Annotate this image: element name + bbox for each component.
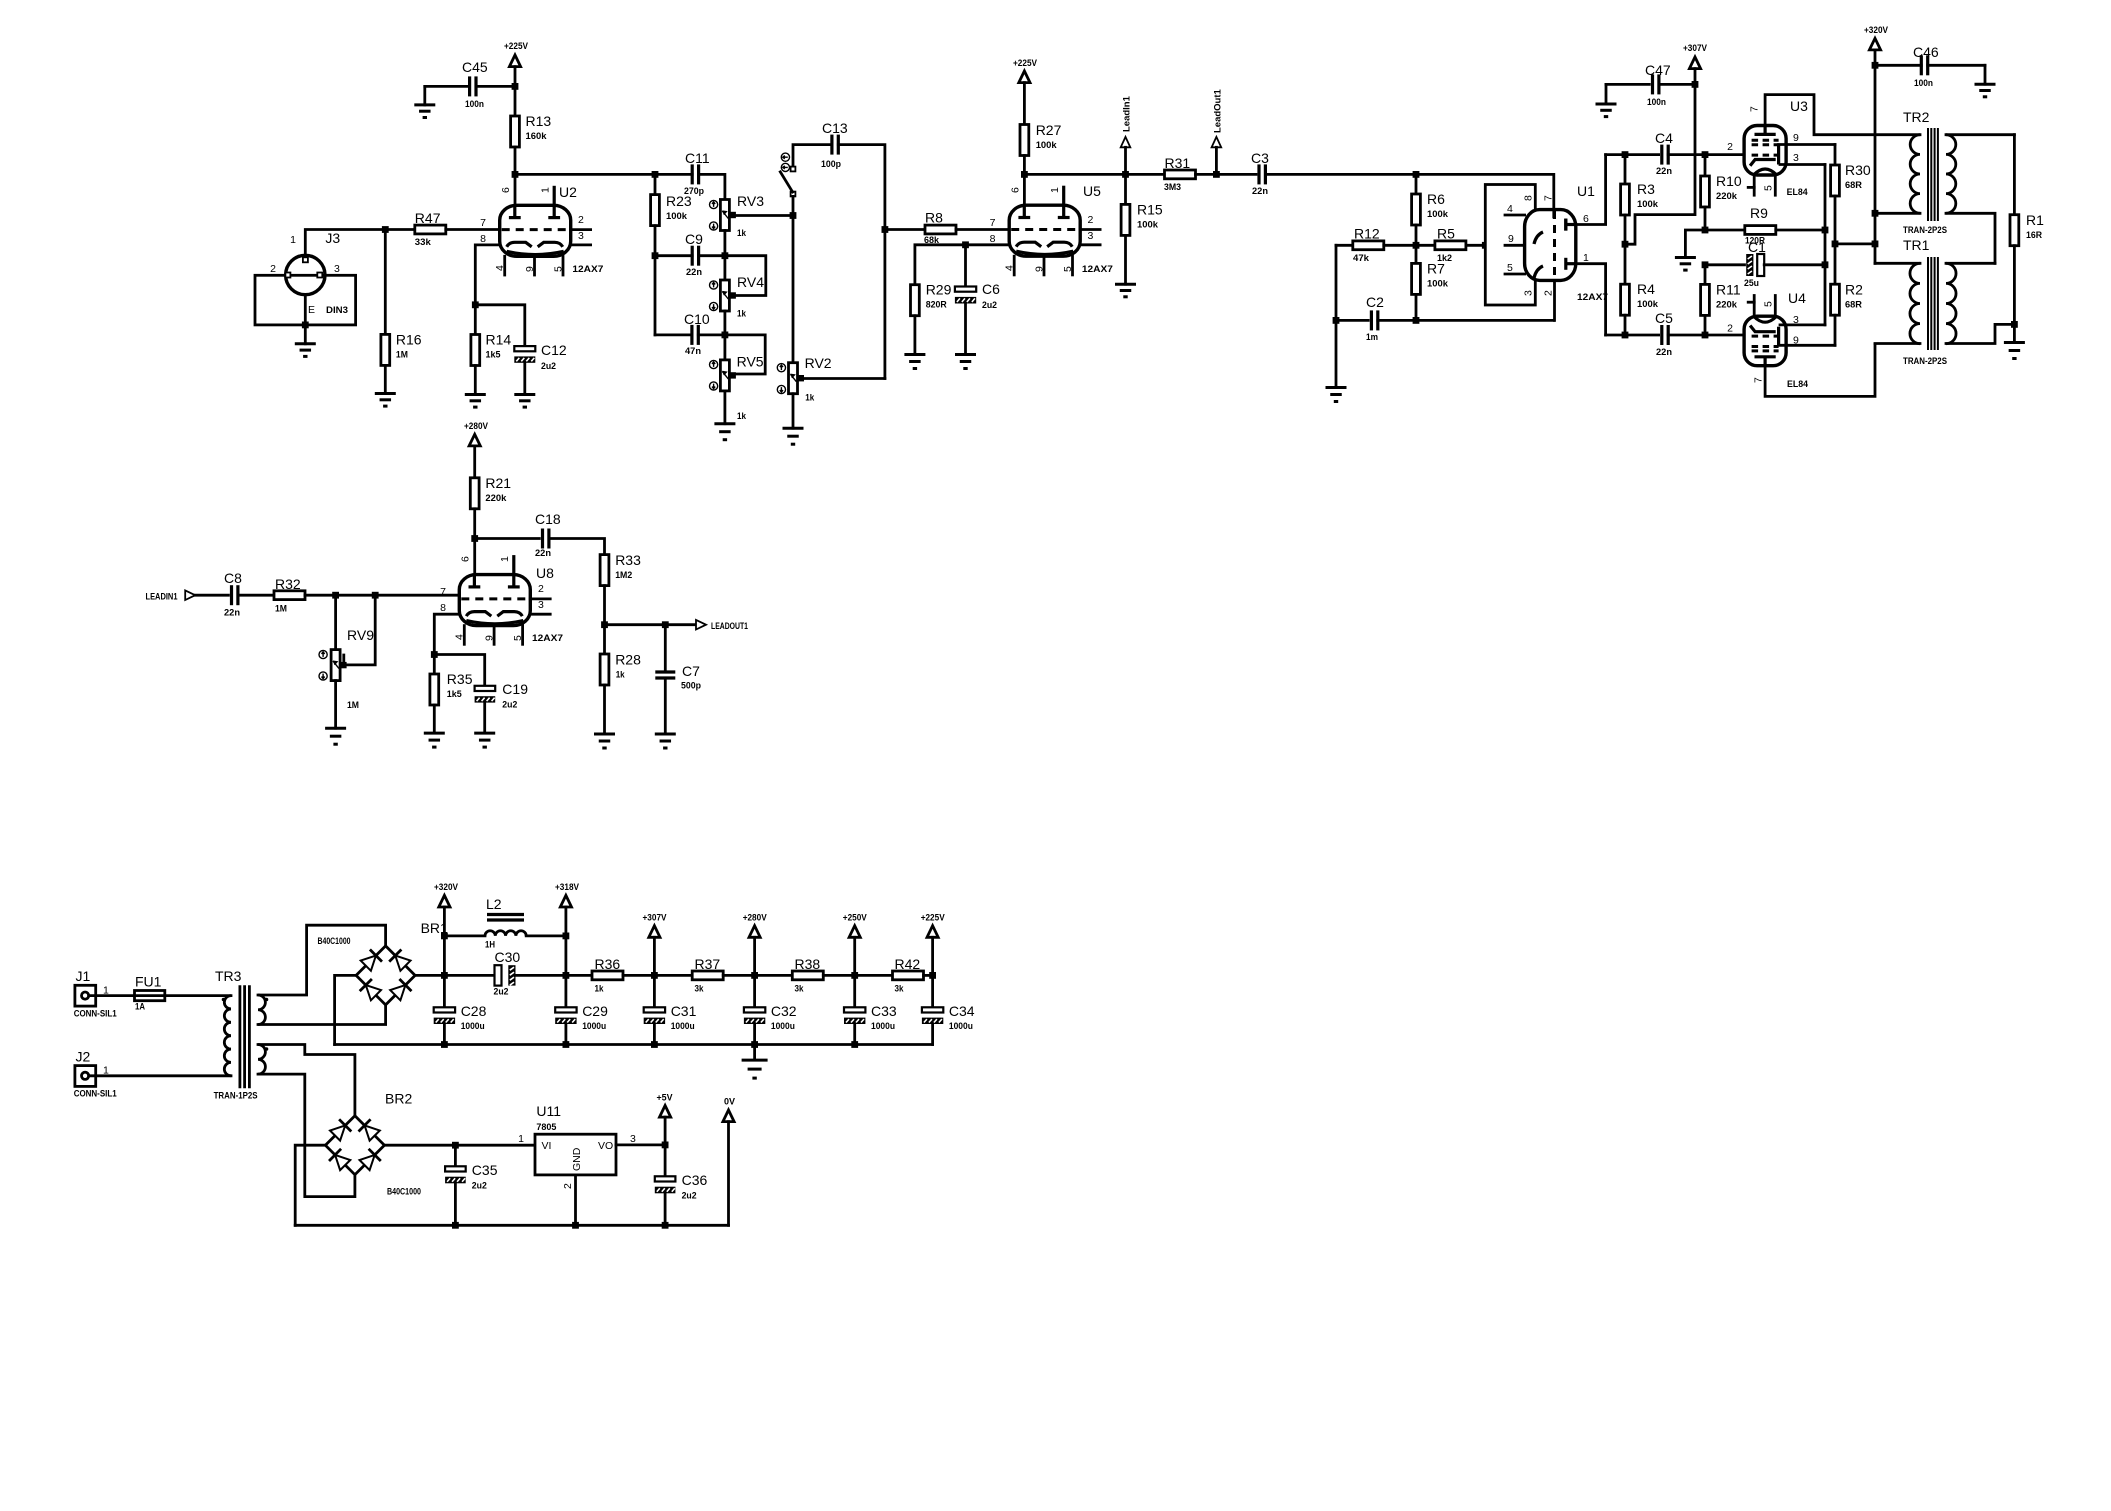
ground (R15) [1124,235,1127,284]
ground (C19) [483,703,486,734]
svg-text:1m: 1m [1366,332,1378,343]
regulator U11 7805 [535,1134,616,1175]
resistor R36 [592,971,623,980]
connector J3 box [255,275,356,325]
svg-text:E: E [308,304,315,316]
svg-text:BR2: BR2 [385,1091,412,1107]
capacitor C9 [691,246,694,266]
svg-text:22n: 22n [1252,186,1268,197]
svg-text:7: 7 [440,586,446,598]
svg-text:C36: C36 [682,1172,708,1188]
potentiometer RV3 [720,200,729,231]
svg-text:LeadOut1: LeadOut1 [1212,88,1223,133]
wire plate bus to R31 [1024,173,1164,176]
svg-text:R4: R4 [1637,281,1655,297]
svg-text:R12: R12 [1354,226,1380,242]
RV4 wiper loop [725,256,766,296]
ground (C12) [523,364,526,395]
svg-text:R15: R15 [1137,202,1163,218]
capacitor C32 [753,975,756,1007]
U3 pin3 wire [1780,163,1825,166]
svg-text:5: 5 [1763,301,1775,307]
svg-text:4: 4 [454,634,466,640]
node U5 plate [1021,171,1028,178]
node C10/RV4 [722,332,729,339]
wire C10 right [698,333,725,336]
svg-text:8: 8 [440,602,446,614]
0V rail [295,1224,728,1227]
ground stub (R9) [1685,230,1705,258]
svg-text:+5V: +5V [657,1093,673,1103]
svg-text:3M3: 3M3 [1164,182,1181,193]
wire LEADIN1 to C8 [195,594,228,597]
svg-text:R2: R2 [1845,282,1863,298]
capacitor C31 [653,975,656,1007]
resistor R21 [470,478,479,509]
svg-text:12AX7: 12AX7 [572,264,603,275]
ground (HV rail) [753,1045,756,1061]
svg-text:C45: C45 [462,59,488,75]
U3 heater stubs [1753,176,1756,195]
capacitor C34 [931,975,934,1007]
svg-text:3k: 3k [895,984,905,995]
wire TR2 sec to R1 [2013,135,2016,215]
U1 pin2 lead [1553,280,1556,320]
svg-text:7: 7 [1749,106,1761,112]
tube U3 EL84 [1744,126,1786,176]
wire C11 to RV3 [699,174,725,199]
resistor R35 [433,655,436,675]
svg-text:1000u: 1000u [461,1021,485,1032]
ground (RV9) [334,681,337,729]
tube U8 12AX7 [459,575,530,626]
U4 heater stubs [1753,296,1756,317]
capacitor C7 [664,625,667,672]
svg-text:22n: 22n [1656,347,1672,358]
svg-text:RV2: RV2 [805,355,832,371]
svg-text:3: 3 [538,599,544,611]
svg-text:C35: C35 [472,1162,498,1178]
capacitor C1 [1705,263,1745,266]
capacitor C36 [664,1145,667,1176]
svg-text:C34: C34 [949,1003,975,1019]
svg-text:1A: 1A [135,1002,145,1013]
wire RV2 wiper [801,377,885,380]
svg-text:1000u: 1000u [871,1021,895,1032]
capacitor C28 [443,975,446,1007]
resistor R3 [1624,155,1627,184]
U1 connection box [1485,185,1535,306]
svg-text:C7: C7 [682,663,700,679]
RV5 adjust arrows [710,360,718,368]
U1 pin7 lead [1552,210,1555,217]
wire C5 to U4 pin2 [1668,334,1744,337]
svg-text:R3: R3 [1637,181,1655,197]
wire R2 to U4 pin9 [1834,315,1837,345]
wire +225V to R13 [514,86,517,116]
svg-text:100p: 100p [821,159,841,170]
wire R33 to LEADOUT node [603,586,606,625]
node C9/RV3 [722,252,729,259]
wire J3 E to box bottom [304,295,307,325]
svg-text:C13: C13 [822,120,848,136]
svg-text:CONN-SIL1: CONN-SIL1 [74,1089,118,1100]
capacitor C6 [964,245,967,287]
svg-text:R21: R21 [485,475,511,491]
svg-text:1k: 1k [616,670,626,681]
bridge rectifier BR1 [356,946,415,1005]
svg-text:+280V: +280V [464,421,488,431]
ground (R29) [914,316,917,355]
resistor R8 [885,228,925,231]
fuse FU1 [135,991,165,1001]
svg-text:9: 9 [1034,266,1046,272]
ground (C6) [964,304,967,355]
ground (R28) [603,685,606,734]
tube U2 12AX7 [500,205,571,256]
svg-text:3: 3 [630,1133,636,1145]
capacitor C13 [830,135,833,155]
node R1/ground [2011,321,2018,328]
svg-text:3: 3 [334,263,340,275]
node +5V [662,1142,669,1149]
J3 pin squares [303,257,308,262]
resistor R6 [1415,174,1418,194]
inductor L2 [444,935,485,938]
svg-text:2: 2 [578,214,584,226]
svg-text:7: 7 [1542,195,1554,201]
ground (C7) [664,678,667,734]
wire C4 bus [1606,153,1659,156]
svg-text:100n: 100n [1647,97,1666,108]
svg-text:2: 2 [1542,290,1554,296]
wire C8 to R32 [238,594,274,597]
wire BR2 minus to 0V rail [295,1145,325,1225]
wire pin6 U2 [514,174,517,205]
svg-text:25u: 25u [1744,278,1759,289]
wire RV3 wiper to switch node [734,214,793,217]
svg-text:100k: 100k [1637,199,1659,210]
svg-text:TR2: TR2 [1903,109,1930,125]
node R3/R4 (+307V feed) [1622,241,1629,248]
ground (R16) [384,365,387,393]
svg-text:C30: C30 [495,949,521,965]
wire C18 to R33 [549,539,605,555]
capacitor C5 [1660,325,1663,345]
svg-text:U2: U2 [559,184,577,200]
svg-text:1: 1 [1049,187,1061,193]
svg-text:220k: 220k [1716,191,1738,202]
U3 pin9 wire [1779,143,1835,146]
wire node to +320V bus [1835,242,1875,245]
svg-text:R13: R13 [526,113,552,129]
node +250V/C33 [851,972,858,979]
resistor R12 [1336,244,1353,247]
U1 pin stubs 4/9/5 [1505,214,1525,217]
svg-text:C11: C11 [685,150,710,166]
ground (J3) [304,325,307,344]
svg-text:820R: 820R [926,300,947,311]
node C46 [1872,62,1879,69]
svg-text:8: 8 [990,233,996,245]
wire C9 left [658,254,692,257]
svg-text:R7: R7 [1427,261,1445,277]
svg-text:+307V: +307V [1683,43,1707,53]
svg-text:R11: R11 [1716,282,1741,298]
svg-text:R47: R47 [415,210,441,226]
wire R38-R42 [855,974,893,977]
svg-text:12AX7: 12AX7 [1082,264,1113,275]
resistor R14 [474,305,477,335]
node L2 left [441,933,448,940]
svg-text:TR1: TR1 [1903,237,1930,253]
svg-text:100k: 100k [666,211,688,222]
svg-text:1k5: 1k5 [447,689,463,700]
svg-text:C3: C3 [1251,150,1269,166]
wire R13 to plate node [514,147,517,174]
svg-text:C6: C6 [982,281,1000,297]
svg-text:C18: C18 [535,511,561,527]
ground (RV2) [792,394,795,429]
svg-text:U11: U11 [536,1103,561,1119]
svg-text:9: 9 [484,635,496,641]
tube U5 12AX7 [1009,205,1080,256]
wire RV3 bottom [724,231,727,256]
resistor R11 [1704,265,1707,285]
TR3 secondary 1 coil [258,995,265,1025]
net label LEADOUT1 [696,620,706,630]
svg-text:100k: 100k [1427,279,1449,290]
svg-text:100n: 100n [465,99,484,110]
svg-text:5: 5 [1062,266,1074,272]
svg-text:C2: C2 [1366,294,1384,310]
svg-text:1000u: 1000u [582,1021,606,1032]
capacitor C4 [1660,145,1663,165]
ground (R14) [474,366,477,395]
wire R23 to C10 junction [654,226,657,335]
svg-text:1: 1 [499,556,511,562]
capacitor C33 [853,975,856,1007]
svg-text:DIN3: DIN3 [326,305,348,316]
ground (R1) [2013,324,2016,342]
svg-text:C19: C19 [502,681,528,697]
svg-text:RV5: RV5 [737,354,764,370]
svg-text:CONN-SIL1: CONN-SIL1 [74,1009,118,1020]
node RV9 wiper return [372,592,379,599]
svg-text:+250V: +250V [843,913,867,923]
svg-text:1000u: 1000u [949,1021,973,1032]
node TR2 primary bottom [1872,210,1879,217]
capacitor C45 [468,76,471,96]
svg-text:C5: C5 [1655,310,1673,326]
svg-text:2u2: 2u2 [494,987,509,998]
resistor R1 [2010,215,2019,246]
svg-text:160k: 160k [526,131,548,142]
svg-text:C47: C47 [1645,62,1671,78]
svg-text:1k: 1k [595,984,605,995]
wire C9 right [699,254,725,257]
wire R21 to node [473,509,476,539]
capacitor C10 [690,325,693,345]
ground (R35) [433,705,436,733]
wire U8 pin8 to R35 [434,614,459,654]
potentiometer RV9 [331,650,340,681]
capacitor C2 [1336,319,1368,322]
svg-text:RV3: RV3 [737,193,764,209]
svg-text:EL84: EL84 [1787,187,1809,198]
resistor R38 [792,971,823,980]
wire R37-R38 [755,974,793,977]
svg-text:6: 6 [500,187,512,193]
U3 pin7 to TR2 primary [1765,95,1920,135]
svg-text:R27: R27 [1036,122,1062,138]
U1 grid dashed [1553,211,1556,279]
svg-text:C4: C4 [1655,130,1673,146]
capacitor C47 [1606,83,1649,86]
svg-text:L2: L2 [486,896,502,912]
svg-text:7805: 7805 [536,1122,557,1133]
capacitor C30 [495,965,502,985]
svg-text:+320V: +320V [434,882,458,892]
ground (RV5) [724,391,727,424]
resistor R2 [1834,244,1837,284]
resistor R47 [385,228,415,231]
U1 pin1 lead [1576,264,1606,335]
svg-text:47k: 47k [1353,253,1370,264]
node C1 left [1702,261,1709,268]
node +280V/C32 [751,972,758,979]
svg-text:R1: R1 [2026,212,2044,228]
node R35/C19 [431,651,438,658]
svg-text:C8: C8 [224,570,242,586]
capacitor C19 [475,686,496,691]
svg-text:C10: C10 [684,311,710,327]
ground rail (HV) [335,1043,933,1046]
U1 cathodes [1534,232,1543,244]
U5 pin stubs/labels [1080,228,1100,231]
U8 pin stubs/labels [530,598,550,601]
node J3/R16 [382,226,389,233]
U1 pin6 lead [1576,155,1606,225]
svg-text:R37: R37 [695,956,721,972]
resistor R28 [603,625,606,654]
ground (C46) [1984,65,1987,84]
svg-text:100n: 100n [1914,78,1933,89]
wire C4 to U3 pin2 [1668,153,1744,156]
U4 pin7 to TR1 primary [1765,344,1875,396]
svg-text:22n: 22n [686,267,702,278]
svg-text:TRAN-2P2S: TRAN-2P2S [1903,356,1947,367]
svg-text:3k: 3k [695,984,705,995]
svg-text:2: 2 [1727,141,1733,153]
RV3 adjust arrows [710,200,718,208]
TR2 primary coil [1910,135,1920,214]
wire C35 bottom [454,1183,457,1225]
node R5/R6 [1413,242,1420,249]
wire U5 pin6 [1023,174,1026,205]
svg-text:5: 5 [512,635,524,641]
resistor R29 [911,285,920,316]
node LeadOut1 [1213,171,1220,178]
svg-text:R33: R33 [615,552,641,568]
svg-text:RV9: RV9 [347,627,374,643]
svg-text:R5: R5 [1437,226,1455,242]
node R8 tap [882,226,889,233]
svg-text:VI: VI [542,1140,552,1152]
svg-text:68R: 68R [1845,180,1862,191]
svg-text:2: 2 [538,583,544,595]
wire BR1 minus to rail [335,975,357,1044]
node C11/R23 [652,171,659,178]
node R30/R2 [1832,241,1839,248]
svg-text:1M: 1M [396,350,408,361]
svg-text:5: 5 [1507,262,1513,274]
node R3 top [1622,151,1629,158]
node RV3 wiper/switch [790,212,797,219]
node RV9 top [332,592,339,599]
node +225V/C34 [929,972,936,979]
wire FU1 to TR3 [165,994,231,997]
svg-text:1M: 1M [347,700,359,711]
wire R30 to node [1834,196,1837,244]
wire R36-R37 [654,974,692,977]
svg-text:1M: 1M [275,604,287,615]
svg-text:GND: GND [571,1147,583,1171]
svg-text:1k5: 1k5 [486,350,502,361]
svg-text:2u2: 2u2 [502,700,517,711]
svg-text:U5: U5 [1083,183,1101,199]
node R6 top [1413,171,1420,178]
node junction C45/R13 [512,83,519,90]
ground (C45) [423,86,426,105]
node R9 right [1822,227,1829,234]
potentiometer RV5 [724,335,727,360]
node plate U2 [512,171,519,178]
svg-text:EL84: EL84 [1787,379,1809,390]
connector J2 [75,1066,96,1087]
wire C45 right [478,85,515,88]
ground (C47) [1605,84,1608,104]
vertical bus pin3 U3/U4 [1824,165,1827,325]
potentiometer RV2 [789,363,798,394]
svg-text:1: 1 [518,1133,524,1145]
svg-text:6: 6 [1010,187,1022,193]
node R5/U1 box [1482,242,1489,249]
svg-text:8: 8 [1523,195,1535,201]
svg-text:R16: R16 [396,332,422,348]
svg-text:9: 9 [524,266,536,272]
svg-text:VO: VO [598,1140,613,1152]
svg-text:1: 1 [540,187,552,193]
svg-text:R42: R42 [895,956,921,972]
svg-text:U4: U4 [1788,290,1806,306]
svg-text:C33: C33 [871,1003,897,1019]
resistor R23 [654,174,657,194]
svg-text:68R: 68R [1845,300,1862,311]
svg-text:7: 7 [990,217,996,229]
wire U5 pin8 to R29 [915,245,1009,285]
resistor R37 [692,971,723,980]
node C7 tap [662,621,669,628]
svg-text:3: 3 [1793,152,1799,164]
svg-text:R10: R10 [1716,173,1742,189]
resistor R13 [511,116,520,147]
svg-text:7: 7 [1753,377,1765,383]
switch SW1 lever [780,172,792,192]
capacitor C8 [230,585,233,605]
node +318V/C29 [563,972,570,979]
svg-text:100k: 100k [1137,220,1159,231]
